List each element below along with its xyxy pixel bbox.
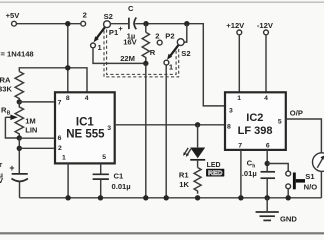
svg-text:3: 3 [107, 125, 111, 132]
resistor R1 1K [197, 160, 199, 168]
wire +12V to IC2 pin 1 [238, 35, 240, 93]
wire +5V branch down to node [67, 24, 69, 68]
svg-text:4: 4 [264, 95, 268, 102]
wire IC1 pin 5 to C1 [100, 163, 102, 173]
svg-text:B: B [7, 110, 11, 116]
junction R net / rail [143, 195, 148, 200]
svg-text:LED: LED [207, 162, 221, 169]
svg-text:22M: 22M [120, 54, 135, 63]
wire LED branch down [197, 125, 199, 148]
junction RA / RB / IC1 pin 7 [17, 99, 22, 104]
wire IC1 pin 1 to rail [67, 163, 69, 197]
potentiometer wiper arrow [5, 116, 11, 118]
junction RB bottom / IC1 pin 6 [17, 135, 22, 140]
svg-text:NE 555: NE 555 [66, 128, 105, 140]
svg-text:6: 6 [58, 135, 62, 142]
junction R1 / rail [195, 195, 200, 200]
svg-text:+: + [118, 24, 123, 33]
wire R bottom to rail [145, 63, 147, 197]
potentiometer RB 1M LIN [15, 102, 23, 138]
svg-text:C: C [128, 4, 134, 13]
junction +5V lower node [65, 65, 70, 70]
svg-text:5: 5 [278, 118, 282, 125]
wire Ch to rail [266, 179, 268, 198]
svg-text:0.01µ: 0.01µ [112, 182, 131, 191]
resistor R 22M [145, 24, 147, 33]
svg-text:16V: 16V [123, 38, 137, 47]
junction S1 / rail [286, 195, 291, 200]
dashed gang link S2 (inner) [107, 30, 177, 75]
ground rail [20, 197, 322, 199]
svg-text:3: 3 [229, 108, 233, 115]
svg-text:4: 4 [85, 95, 89, 102]
svg-text:5: 5 [102, 154, 106, 161]
svg-text:8: 8 [66, 95, 70, 102]
svg-text:S2: S2 [181, 49, 190, 58]
wire IC2 pin 7 to rail [240, 150, 242, 198]
ground symbol GND [266, 198, 268, 211]
wire IC1 pin 7 [19, 101, 54, 103]
wire IC1 pin 8 [67, 68, 69, 93]
svg-text:-12V: -12V [257, 21, 274, 30]
svg-text:+5V: +5V [6, 11, 21, 20]
svg-text:S2: S2 [104, 12, 113, 21]
wire meter to rail [320, 171, 322, 197]
wire C1 to rail [100, 180, 102, 198]
svg-text:1M: 1M [25, 117, 36, 126]
resistor RA 33K [15, 72, 23, 102]
junction P2 common node [184, 21, 189, 26]
wire IC2 pin 5 output [286, 119, 322, 153]
svg-text:.01µ: .01µ [242, 169, 257, 178]
svg-text:= 1N4148: = 1N4148 [1, 50, 34, 59]
switch S1 N/O pushbutton [286, 171, 291, 176]
wire C to IC2 pin 3 net [135, 24, 225, 106]
svg-text:7: 7 [58, 99, 62, 106]
wire CT bottom to ground rail [19, 182, 21, 198]
wire IC1 pin 2 [19, 147, 54, 149]
junction pin1/rail [65, 195, 70, 200]
svg-text:IC1: IC1 [76, 116, 95, 128]
junction R bottom / P1 pos1 [143, 61, 148, 66]
junction C/R node [143, 21, 148, 26]
svg-text:33K: 33K [0, 85, 12, 94]
LED emission arrows [185, 148, 188, 153]
wire P2 position 1 to rail [165, 65, 167, 198]
svg-text:2: 2 [58, 145, 62, 152]
IC1 NE 555 [55, 92, 115, 163]
svg-text:S1: S1 [305, 172, 315, 181]
junction Ch / rail / GND [265, 195, 270, 200]
svg-text:+12V: +12V [226, 21, 245, 30]
svg-text:LF 398: LF 398 [238, 125, 273, 137]
junction pin 6 node [265, 161, 270, 166]
junction P2 net / rail [164, 195, 169, 200]
meter M output indicator [313, 153, 324, 172]
svg-text:R1: R1 [179, 171, 189, 180]
junction +5V node [65, 21, 70, 26]
svg-text:P2: P2 [165, 32, 174, 41]
junction C1/rail [98, 195, 103, 200]
junction IC1 pin 2 node [17, 146, 22, 151]
svg-text:+: + [9, 163, 14, 173]
wire P1 position 1 down and right to R bottom [93, 48, 146, 64]
wire wiper return to RB bottom [5, 117, 19, 138]
junction pin7 / rail [238, 195, 243, 200]
wire node down to P2 common [184, 24, 187, 42]
wire IC2 pin 6 down [266, 150, 268, 171]
capacitor C1 0.01u [93, 173, 109, 175]
svg-text:R: R [150, 48, 156, 57]
svg-text:8: 8 [227, 124, 231, 131]
svg-text:7: 7 [238, 142, 242, 149]
svg-text:O/P: O/P [290, 109, 303, 118]
svg-text:IC2: IC2 [246, 112, 263, 124]
svg-text:LIN: LIN [25, 126, 37, 135]
wire -12V to IC2 pin 4 [265, 35, 267, 93]
svg-text:2: 2 [83, 11, 87, 20]
LED red indicator [190, 148, 205, 159]
wire +5V rail to junction [16, 23, 80, 25]
wire node to CT [18, 138, 20, 173]
svg-text:1: 1 [237, 95, 241, 102]
wire P1 common to C [110, 23, 129, 25]
svg-text:6: 6 [266, 142, 270, 149]
svg-text:N/O: N/O [304, 182, 318, 191]
svg-text:1K: 1K [179, 180, 189, 189]
wire pin 6 node to S1 [267, 164, 288, 172]
svg-text:C1: C1 [114, 172, 124, 181]
wire +5V branch left to RA [19, 68, 68, 72]
wire IC1 pin 6 [19, 137, 54, 139]
bottom frame border [0, 232, 324, 234]
wire S1 to rail [287, 189, 289, 198]
dashed gang link S2 (outer) [104, 31, 179, 77]
svg-text:GND: GND [280, 214, 297, 223]
wire +5V branch to IC1 pin 4 [68, 68, 87, 93]
svg-text:1: 1 [62, 154, 66, 161]
svg-text:RA: RA [0, 75, 11, 84]
top frame border [0, 2, 324, 3]
LED RED badge [206, 169, 224, 177]
svg-text:2: 2 [155, 32, 159, 41]
IC2 LF 398 [225, 92, 286, 150]
wire IC1 pin 3 to IC2 pin 8 [115, 124, 225, 126]
svg-text:RED: RED [208, 170, 222, 177]
junction LED branch [195, 122, 200, 127]
